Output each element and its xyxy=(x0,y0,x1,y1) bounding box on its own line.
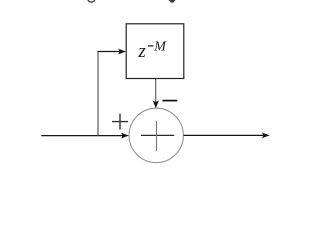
input wire xyxy=(41,135,122,137)
svg-text:M: M xyxy=(153,40,167,55)
plus cross inside summing junction xyxy=(141,121,174,151)
output arrowhead xyxy=(262,133,270,139)
plus sign xyxy=(112,114,128,130)
wire from delay block down xyxy=(155,79,157,102)
arrowhead into top of summing junction xyxy=(153,100,159,108)
summing junction circle xyxy=(129,108,183,162)
arrowhead into summing junction xyxy=(121,133,129,139)
branch wire up xyxy=(97,51,99,135)
svg-text:z: z xyxy=(137,41,146,62)
label z^-M xyxy=(137,40,167,62)
wire into delay block xyxy=(98,51,120,53)
arrowhead into delay block xyxy=(118,49,126,55)
output wire xyxy=(184,134,264,136)
caption descender fragment (serif foot, cropped) xyxy=(169,0,176,3)
caption descender fragment (letter g loop, cropped) xyxy=(88,0,95,2)
delay block z^-M xyxy=(126,24,184,79)
minus sign xyxy=(162,100,177,102)
